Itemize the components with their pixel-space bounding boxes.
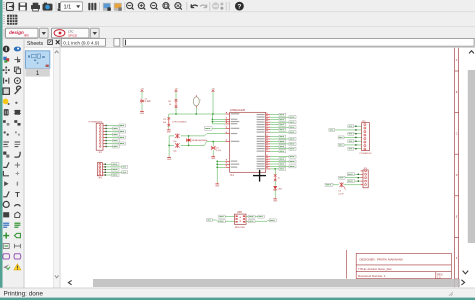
wire bus left end down [168,114,170,118]
wire U1 pin 2 to net label [270,116,289,118]
svg-text:USB: USB [237,212,242,214]
U1 left pin name 3 [231,121,240,122]
svg-text:GND: GND [167,159,172,161]
+5V bus wire [169,113,226,115]
U1 right pin name 6 [257,126,265,127]
junction power pin 1 [217,161,218,162]
U1 left pin name 10 [231,167,238,168]
J4 pin 1 [361,170,367,172]
net label for U1 pin 17 [279,158,286,161]
wire label to C4 [333,184,339,186]
net label J4 reset [325,183,333,186]
tool icon: split [3,162,9,167]
tool icon: lock [15,131,20,135]
toolbar gripper [3,2,5,10]
svg-text:SPICE: SPICE [68,33,77,37]
net label for U1 pin 21 [279,167,286,170]
tool icon: circle [3,201,9,207]
wire +5V to C1 [141,92,143,99]
net label for U1 pin 12 [289,142,296,145]
wire crystal left vertical [168,136,170,156]
svg-text:0.1uF: 0.1uF [145,100,152,103]
wire J1 pin 1 to net label [105,125,119,127]
net label for U1 pin 7 [279,128,286,131]
J2 pin 1 [99,163,105,165]
net label J2 pin 5 [112,174,119,177]
net label for U1 pin 10 [289,138,296,141]
svg-text:0.1 inch (9.0 4.9): 0.1 inch (9.0 4.9) [63,41,99,47]
U1 left pin stub 8 [225,159,229,161]
J1 pin dot 4 [105,134,106,135]
J4 pin dot 2 [358,177,359,178]
U1 left pin name 5 [231,128,240,129]
net label J3 pin 3 [348,132,354,135]
svg-text:TITLE: Arduino Nano_Rev: TITLE: Arduino Nano_Rev [358,267,392,271]
J2 pin dot 3 [105,169,106,170]
net label J1 pin 7 [119,142,126,145]
wire C3 to GND [212,150,214,155]
U1 right pin name 15 [257,151,265,152]
tool icon: corner [3,171,9,176]
net label J4 1 [347,173,354,176]
wire U1 pin 3 to net label [270,119,279,121]
net label for U1 pin 14 [289,147,296,150]
wire U1 pin 16 to net label [270,156,289,158]
wire R2 to GND [168,126,170,129]
title block frame [346,250,451,279]
wire U1 pin 6 to net label [270,126,289,128]
sheets panel background [25,47,60,288]
icon: image export camera [43,3,53,11]
wire USB left [212,219,216,221]
wire R3 to LED1 [274,181,276,186]
icon: board view (orange) [114,3,122,11]
wire J4 pin to net label 1 [354,173,360,175]
svg-text:0.1uF: 0.1uF [216,150,222,152]
svg-text:design: design [9,30,24,35]
ground (R2) [167,129,172,134]
U1 left pin name 6 [231,133,238,134]
wire USB right 2 [246,220,248,222]
svg-text:GND: GND [211,158,216,160]
U1 right pin stub 19 [266,162,271,164]
J3 pin dot 5 [355,141,356,142]
U1 right pin name 1 [257,114,265,115]
+5V symbol (R1) [174,89,178,92]
U1 left pin stub 10 [225,165,229,167]
wire F1 to +5V bus [195,108,197,114]
icon: grid dialog [7,15,17,25]
thumbnail mini schematic marks [28,54,49,67]
tool icon: paste [15,102,17,104]
tool icon: frame2 [14,254,21,259]
wire bus drop at x212 [211,114,213,124]
schematic canvas [60,48,475,288]
wire U1 pin 10 to net label [270,138,289,140]
op-amp? no: microcontroller U1 ATMEGA328 box [230,112,266,172]
tool icon: value [15,142,21,147]
svg-text:LOW SCHMOD: LOW SCHMOD [172,121,187,123]
net label J1 pin 4 [113,133,120,136]
tool icon: attribute [3,244,9,249]
sheet 1 label row [25,68,49,76]
button: LTspice dropdown [91,28,100,38]
left tool palette background [3,39,25,288]
U1 left pin stub 4 [225,122,229,124]
status bar resize grip [449,292,453,296]
command row background [24,39,475,48]
wire J1 pin 4 to net label [105,134,112,136]
tool icon: name [3,142,9,147]
tool icon: mark [14,57,20,63]
capacitor C4 (series) [338,182,345,195]
U1 left pin name 7 [231,141,240,142]
net label J1 pin 3 [119,130,126,133]
tool icon: erc plane [3,264,10,269]
U1 left pin name 4 [231,123,238,124]
junction crystal left lower [168,145,169,146]
J1 pin 2 [99,128,105,130]
net label J3 pin 5 [348,140,354,143]
J2 pin 5 [99,174,105,176]
U1 right pin name 4 [257,121,265,122]
svg-text:1: 1 [36,70,40,77]
small command aux box [114,38,120,46]
U1 right pin name 7 [257,129,265,130]
wire J2 pin 3 to net label [104,169,111,171]
capacitor C5 22p (series) [173,143,179,153]
wire J3 pin 1 to net label [354,125,362,127]
junction on bus at R1 [175,113,176,114]
wire U1 pin 11 to net label [270,141,279,143]
svg-text:GND: GND [140,113,145,115]
U1 left pin stub 3 [225,120,229,122]
wire J1 pin 2 to net label [105,128,112,130]
net label for U1 pin 16 [289,155,296,158]
J2 pin dot 4 [105,172,106,173]
wire U1 pin 14 to net label [270,148,289,150]
crystal Q1 16MHz [186,139,207,143]
schematic frame right border [455,48,459,287]
svg-text:Document Number: 1: Document Number: 1 [358,274,386,278]
U1 right pin name 11 [257,141,265,142]
icon: export/print-setup document [7,3,14,11]
icon: zoom fit [127,3,134,10]
horizontal scrollbar right arrow [461,280,464,285]
svg-text:LED: LED [278,188,283,190]
wire R1 to +5V bus [175,108,177,115]
net label J1 pin 2 [113,127,120,130]
J1 pin dot 3 [105,131,106,132]
net label for U1 pin 4 [289,121,296,124]
U1 right pin name 20 [257,166,265,167]
canvas top hairline [60,47,475,49]
wire GND pin [217,163,225,165]
junction crystal top [188,135,189,136]
tool icon: group [3,88,9,94]
ground (LED1) [273,198,278,203]
svg-text:0.1uF: 0.1uF [338,194,344,196]
icon: zoom in [138,3,145,10]
wire U1 pin 20 to net label [270,165,289,167]
icon: zoom out [151,3,158,10]
J3 pin circle 4 [364,134,366,136]
U1 left pin stub 5 [225,127,229,129]
U1 right pin stub 16 [266,155,271,157]
icon: zoom select [163,3,170,10]
resistor R3 1k [274,174,281,181]
net label J2 pin 1 [112,163,119,166]
wire AVCC upper [212,118,225,120]
svg-text:Printing: done: Printing: done [4,290,44,297]
button: LTspice [52,28,90,38]
wire C1 to GND [141,103,143,110]
U1 right pin stub 8 [266,130,271,132]
U1 right pin stub 18 [266,160,271,162]
horizontal scrollbar left arrow [68,280,71,284]
net label J1 pin 6 [113,139,120,142]
U1 right pin stub 15 [266,149,271,151]
J3 pin circle 5 [364,138,366,140]
tool icon: erc warning [14,264,21,270]
J1 pin 4 [99,134,105,136]
U1 right pin name 3 [257,119,265,120]
U1 right pin stub 13 [266,145,271,147]
J3 pin dot 1 [355,126,356,127]
U1 right pin stub 9 [266,135,271,137]
junction AVCC lower [212,121,213,122]
junction at AVCC drop [212,119,213,120]
wire J2 pin 1 to net label [104,163,111,165]
svg-text:MINI-USB: MINI-USB [235,227,245,229]
wire J3 pin 2 to net label [335,129,362,131]
tool icon: dimension [14,244,20,248]
U1 left pin name 2 [231,119,238,120]
J3 pin dot 7 [355,148,356,149]
U1 right pin stub 12 [266,142,271,144]
wire AGND pin [217,166,225,168]
wire USB right 1 [246,216,248,218]
capacitor C1 0.1uF [140,98,151,103]
row2 gripper [3,15,5,24]
wire USB D+ [225,220,234,222]
icon: schematic view (blue) [103,3,111,11]
toolbar row 3 background [3,27,475,39]
U1 right pin stub 11 [266,140,271,142]
J1 pin dot 6 [105,140,106,141]
svg-text:?: ? [237,4,241,11]
icon: zoom redraw [175,3,182,10]
capacitor C2 22p (series) [173,134,179,144]
tool icon: net [14,223,20,227]
net label J3 pin 6 [338,143,344,146]
wire J1 pin 7 to net label [105,143,119,145]
U1 right pin stub 7 [266,128,271,130]
tool icon: rect [3,212,9,217]
J2 pin 2 [99,166,105,168]
U1 right pin stub 10 [266,137,271,139]
net label for U1 pin 13 [279,145,286,148]
wire C4 to J4 [343,184,360,186]
wire U1 pin 4 to net label [270,121,289,123]
resistor R1 1k [168,99,177,108]
vertical scrollbar down arrow [463,271,469,274]
J3 pin circle 8 [364,148,366,150]
J1 pin 1 [99,125,105,127]
wire J2 pin 2 to net label [104,166,121,168]
U1 left pin name 8 [231,161,238,162]
wire U1 pin 17 to net label [270,158,279,160]
net label RESET [205,127,213,130]
J1 pin dot 1 [105,125,106,126]
U1 right pin stub 21 [266,167,271,169]
svg-text:Sheets: Sheets [27,41,44,47]
icon: undo [191,4,198,7]
U1 right pin stub 20 [266,165,271,167]
wire J3 pin 3 to net label [354,133,362,135]
wire AREF third [212,123,225,125]
net label USB right 1 [248,215,255,218]
tool icon: label [14,233,20,237]
svg-text:POWER(2X3): POWER(2X3) [89,121,103,123]
vertical scrollbar up arrow [469,51,474,54]
J3 pin circle 3 [364,131,366,133]
J4 pin 5 [361,184,367,186]
+5V symbol (C1 rail) [140,89,144,92]
wire J1 pin 3 to net label [105,131,119,133]
J3 pin circle 1 [364,124,366,126]
+5V symbol (VCC feed) [211,89,215,92]
net label J1 pin 1 [119,124,126,127]
wire J1 pin 5 to net label [105,137,119,139]
wire AVCC lower [212,121,225,123]
wire XTAL1 rail left [169,135,174,137]
sheet 1 thumbnail (selected) [25,51,49,69]
tool icon: miter [14,152,20,157]
wire J2 pin 4 to net label [104,171,121,173]
sheets panel scrollbar [54,48,60,288]
wire U1 pin 12 to net label [270,143,289,145]
wire J2 pin 5 to net label [104,174,111,176]
wire +5V to R1 [175,92,177,100]
tool icon: small bar [17,182,18,186]
wire USB D- [225,216,234,218]
U1 right pin name 18 [257,161,265,162]
J2 pin dot 5 [105,174,106,175]
U1 right pin stub 2 [266,115,271,117]
J1 pin dot 2 [105,128,106,129]
tool icon: gateswap [3,131,8,136]
net label J3 pin 4 [338,136,344,139]
svg-text:ATMEGA16MHz: ATMEGA16MHz [192,139,207,142]
J3 pin dot 3 [355,133,356,134]
button: design link [6,28,39,38]
wire XTAL2 rail left [169,144,174,146]
J3 pin circle 6 [364,141,366,143]
connector X1 USB box [235,214,247,224]
net label J2 pin 2 [122,165,128,168]
tool icon: frame1 [3,254,10,259]
resistor R2 10k [163,117,187,126]
U1 right pin name 13 [257,146,265,147]
wire U1 pin 8 to net label [270,131,289,133]
net label for U1 pin 5 [279,123,286,126]
wire C3 top [212,142,214,146]
junction C3 top [213,141,214,142]
tool icon: mirror [4,78,9,84]
U1 left pin stub 9 [225,162,229,164]
net label for U1 pin 20 [289,165,296,168]
wire +5V down to bus [212,92,214,114]
J1 pin dot 5 [105,137,106,138]
wire J3 pin 6 to net label [344,144,362,146]
junction power pin 2 [217,164,218,165]
U1 right pin stub 1 [266,113,271,115]
tool icon: change wrench [15,86,21,94]
U1 right pin name 10 [257,138,265,139]
U1 left pin stub 2 [225,118,229,120]
tool icon: pinswap [3,120,9,125]
icon: help [235,2,244,11]
ground (crystal caps) [167,156,172,161]
wire J4 pin to net label 3 [354,180,360,182]
net label for U1 pin 15 [279,150,286,153]
U1 right pin name 9 [257,136,265,137]
U1 right pin name 17 [257,158,265,159]
capacitor C3 0.1uF [211,146,222,152]
wire U1 pin 9 to net label [270,136,279,138]
U1 left pin stub 7 [225,140,229,142]
connector J2 ICSP box [97,163,102,176]
net label USB far left [207,219,213,222]
left window edge teal strip [0,0,3,300]
J1 pin 5 [99,137,105,139]
ground (IC power) [215,183,220,188]
tool icon: invoke [15,162,20,167]
net label for U1 pin 9 [279,135,286,138]
wire LED1 to GND [274,190,276,198]
junction power pin 3 [217,167,218,168]
U1 left pin stub 1 [225,112,229,114]
wire J3 pin 5 to net label [354,140,362,142]
J2 pin dot 1 [105,164,106,165]
tool icon: add part [14,110,21,115]
net label for U1 pin 3 [279,118,286,121]
U1 right pin stub 17 [266,157,271,159]
wire J1 pin 8 to net label [105,146,112,148]
tool icon: wire [3,191,9,196]
ground (C1) [140,110,145,115]
tool icon: rotate [14,78,20,84]
net label J3 pin 7 [348,147,354,150]
wire U1 pin 7 to net label [270,129,279,131]
horizontal overlay scrollbar thumb [93,279,460,287]
wire XTAL1 rail right [181,134,226,136]
net label J2 pin 4 [122,171,128,174]
J2 pin 3 [99,169,105,171]
J4 pin 2 [361,173,367,175]
icon: go dots (disabled) [220,3,223,10]
J4 pin 4 [361,180,367,182]
svg-text:D: D [456,174,458,177]
J1 pin 6 [99,140,105,142]
top toolbar row background [3,0,475,12]
tool icon: show eye [14,47,21,52]
svg-text:link: link [24,34,29,38]
tool icon: replace [14,120,20,125]
U1 right pin name 19 [257,163,265,164]
net label USB D+ [219,220,226,223]
